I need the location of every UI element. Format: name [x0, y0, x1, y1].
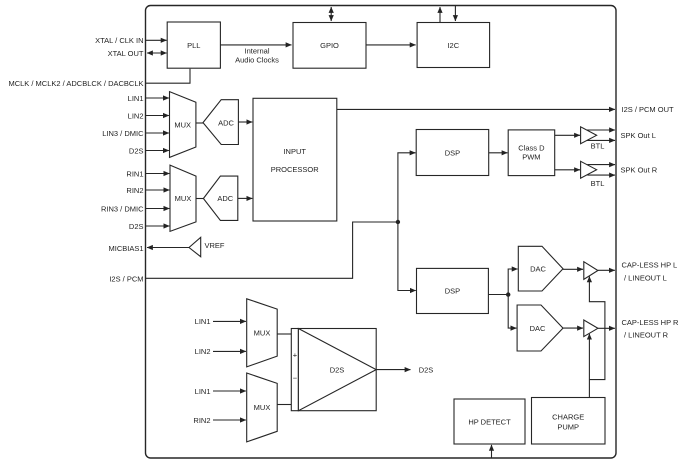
wire DAC L to HP amp L: [563, 268, 583, 270]
adc ADC2: [203, 176, 237, 220]
pin SPK Out L label: [621, 131, 656, 140]
svg-text:I2C: I2C: [447, 41, 459, 50]
pin LIN1 (to MUX3): [195, 317, 246, 326]
dac DAC R: [517, 305, 563, 351]
pin LIN1 (to MUX4): [195, 387, 246, 396]
pin RIN2: [126, 186, 169, 195]
svg-text:CHARGE: CHARGE: [552, 412, 584, 421]
svg-text:RIN1: RIN1: [126, 169, 143, 178]
svg-text:PUMP: PUMP: [557, 422, 579, 431]
svg-text:LIN3 / DMIC: LIN3 / DMIC: [102, 129, 144, 138]
pin XTAL OUT (bidirectional): [108, 49, 167, 58]
pin CAP-LESS HP L / LINEOUT L label: [622, 260, 678, 282]
pin LIN3 / DMIC: [102, 129, 169, 138]
svg-text:MUX: MUX: [254, 403, 271, 412]
wire DSP2 to DAC junction: [488, 294, 508, 296]
block Class D PWM: [508, 130, 555, 176]
svg-text:DSP: DSP: [445, 148, 460, 157]
wire MUX4 to D2S input bar: [277, 404, 291, 406]
wire PLL to GPIO (Internal Audio Clocks): [220, 45, 291, 65]
svg-text:Audio Clocks: Audio Clocks: [235, 56, 279, 65]
svg-text:Internal: Internal: [244, 46, 269, 55]
svg-text:SPK Out R: SPK Out R: [621, 165, 658, 174]
pin XTAL / CLK IN: [95, 36, 166, 45]
block INPUT PROCESSOR: [253, 98, 337, 221]
svg-text:DAC: DAC: [530, 324, 546, 333]
node junction DAC split: [506, 292, 510, 296]
svg-text:LIN1: LIN1: [195, 317, 211, 326]
pin LIN2 (to MUX3): [195, 347, 246, 356]
svg-text:DSP: DSP: [445, 287, 460, 296]
svg-text:XTAL OUT: XTAL OUT: [108, 49, 144, 58]
svg-text:CAP-LESS HP L: CAP-LESS HP L: [622, 260, 678, 269]
wire MUX3 to D2S input bar: [277, 333, 291, 335]
svg-text:/ LINEOUT L: / LINEOUT L: [624, 273, 667, 282]
block PLL: [167, 22, 220, 68]
svg-text:+: +: [293, 351, 298, 360]
wire MUX2 to ADC2: [196, 198, 203, 200]
node junction I2S/PCM to DSPs: [396, 220, 400, 224]
wire Class D to BTL L: [555, 134, 580, 136]
svg-text:PWM: PWM: [522, 153, 540, 162]
svg-text:MICBIAS1: MICBIAS1: [108, 244, 143, 253]
svg-text:RIN2: RIN2: [126, 186, 143, 195]
pin MCLK / MCLK2 / ADCBLCK / DACBCLK: [8, 69, 190, 88]
svg-text:D2S: D2S: [330, 365, 345, 374]
wire DSP1 to Class D PWM: [489, 152, 508, 154]
wire junction to DSP1: [398, 153, 416, 222]
svg-text:ADC: ADC: [218, 118, 234, 127]
wire junction to DAC L: [508, 269, 517, 295]
svg-text:ADC: ADC: [217, 194, 233, 203]
block HP DETECT: [454, 399, 525, 444]
svg-text:GPIO: GPIO: [320, 41, 339, 50]
pin RIN1: [126, 169, 169, 178]
pin CAP-LESS HP R / LINEOUT R label: [622, 318, 680, 340]
svg-text:D2S: D2S: [129, 222, 144, 231]
mux MUX3: [247, 299, 278, 367]
wire charge pump to HP amp R: [588, 334, 590, 398]
svg-text:DAC: DAC: [530, 265, 546, 274]
wire Class D to BTL R: [555, 169, 580, 171]
svg-text:XTAL / CLK IN: XTAL / CLK IN: [95, 36, 143, 45]
svg-text:RIN3 / DMIC: RIN3 / DMIC: [101, 204, 144, 213]
wire BTL R outputs to SPK Out R: [587, 165, 615, 176]
amp HP L: [584, 262, 598, 280]
mux MUX1: [170, 92, 196, 158]
vref VREF buffer: [189, 237, 225, 256]
svg-text:MCLK / MCLK2 / ADCBLCK / DACBC: MCLK / MCLK2 / ADCBLCK / DACBCLK: [8, 79, 143, 88]
mux MUX4: [247, 373, 278, 442]
svg-text:MUX: MUX: [254, 329, 271, 338]
pin RIN2 (to MUX4): [193, 416, 245, 425]
wire bottom border to HP DETECT: [491, 445, 493, 458]
pin LIN2: [128, 111, 169, 120]
pin MICBIAS1 (output from VREF): [108, 244, 189, 253]
wire charge pump loop to HP amp L: [589, 276, 605, 379]
svg-text:I2S / PCM: I2S / PCM: [109, 274, 143, 283]
svg-text:D2S: D2S: [129, 146, 144, 155]
svg-text:/ LINEOUT R: / LINEOUT R: [624, 330, 669, 339]
pin I2S / PCM OUT label: [622, 105, 675, 114]
svg-text:MUX: MUX: [174, 121, 191, 130]
svg-text:RIN2: RIN2: [193, 416, 210, 425]
block I2C: [417, 23, 490, 68]
dac DAC L: [518, 246, 563, 291]
wire MUX1 to ADC1: [196, 122, 203, 124]
wire junction to DSP2: [398, 222, 416, 291]
wire DAC R to HP amp R: [563, 327, 583, 329]
svg-text:I2S / PCM OUT: I2S / PCM OUT: [622, 105, 675, 114]
wire D2S output: [376, 365, 433, 374]
pin I2S / PCM (input): [109, 222, 398, 283]
amp HP R: [584, 320, 598, 337]
wire BTL L outputs to SPK Out L: [587, 130, 615, 140]
pin RIN3 / DMIC: [101, 204, 169, 213]
svg-text:−: −: [293, 374, 298, 383]
amp BTL R: [581, 161, 605, 188]
wire ADC1 to INPUT PROCESSOR: [238, 121, 252, 123]
svg-text:PROCESSOR: PROCESSOR: [271, 165, 320, 174]
amp BTL L: [581, 127, 605, 151]
pin D2S (right MUX): [129, 222, 169, 231]
block GPIO: [293, 23, 366, 69]
svg-text:BTL: BTL: [591, 179, 605, 188]
svg-text:CAP-LESS HP R: CAP-LESS HP R: [622, 318, 680, 327]
chip boundary: [146, 6, 617, 459]
svg-text:HP DETECT: HP DETECT: [468, 417, 511, 426]
pin SPK Out R label: [621, 165, 658, 174]
block DSP (bottom): [417, 268, 489, 313]
wire INPUT PROCESSOR to I2S/PCM OUT: [337, 108, 615, 110]
block D2S differential to single-ended: [291, 329, 376, 411]
svg-text:LIN1: LIN1: [128, 94, 144, 103]
svg-text:MUX: MUX: [175, 194, 192, 203]
wire I2C down arrow from top border: [454, 6, 456, 21]
wire I2C up arrow to top border: [439, 7, 441, 23]
svg-text:LIN2: LIN2: [128, 111, 144, 120]
block DSP (top): [416, 130, 489, 176]
block CHARGE PUMP: [532, 398, 606, 445]
svg-text:INPUT: INPUT: [283, 147, 306, 156]
pin LIN1: [128, 94, 169, 103]
wire ADC2 to INPUT PROCESSOR: [238, 197, 253, 199]
wire HP amp R to border: [598, 327, 615, 329]
svg-text:VREF: VREF: [205, 241, 225, 250]
svg-text:SPK Out L: SPK Out L: [621, 131, 656, 140]
wire GPIO to I2C: [366, 44, 416, 46]
adc ADC1: [203, 100, 238, 145]
wire GPIO bidirectional to top border: [330, 7, 332, 21]
svg-text:Class D: Class D: [518, 144, 545, 153]
svg-text:BTL: BTL: [591, 141, 605, 150]
pin D2S (left MUX): [129, 146, 169, 155]
svg-text:D2S: D2S: [419, 365, 434, 374]
svg-text:LIN2: LIN2: [195, 347, 211, 356]
wire junction to DAC R: [508, 295, 516, 329]
svg-text:LIN1: LIN1: [195, 387, 211, 396]
wire HP amp L to border: [598, 269, 615, 271]
mux MUX2: [170, 165, 196, 231]
svg-text:PLL: PLL: [187, 41, 200, 50]
